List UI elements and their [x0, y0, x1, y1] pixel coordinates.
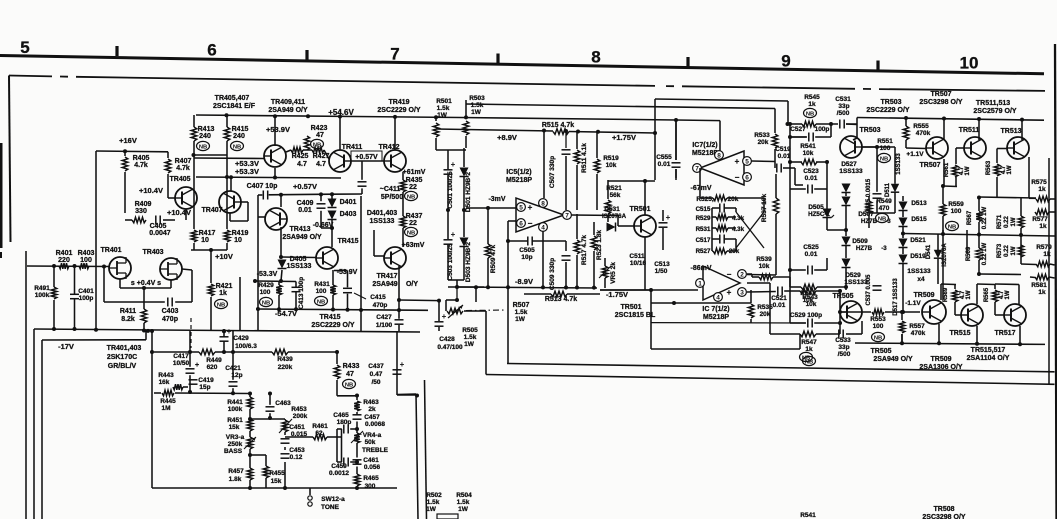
- svg-text:x4: x4: [917, 276, 925, 283]
- ruler tick: [686, 57, 689, 67]
- svg-text:TR503: TR503: [880, 99, 901, 106]
- svg-text:5: 5: [519, 205, 523, 212]
- svg-text:R549: R549: [876, 198, 892, 205]
- svg-text:/50: /50: [371, 379, 380, 386]
- wire +0.57 to C409/D401: [281, 193, 332, 196]
- capacitor C511 electrolytic: [659, 222, 668, 224]
- svg-text:TR419: TR419: [388, 99, 409, 106]
- wire R505 net: [456, 287, 458, 300]
- svg-text:1SS133: 1SS133: [370, 218, 395, 225]
- op-amp IC7b pin 1: [696, 279, 705, 288]
- svg-text:240: 240: [233, 133, 245, 140]
- wire TR411-TR412 base link: [351, 160, 384, 162]
- svg-text:C523: C523: [803, 168, 819, 175]
- svg-text:1: 1: [698, 281, 702, 288]
- svg-text:NB: NB: [345, 382, 353, 388]
- svg-text:1.5k: 1.5k: [515, 309, 528, 316]
- svg-text:+53.3V: +53.3V: [235, 167, 259, 176]
- svg-text:/500: /500: [838, 351, 851, 358]
- svg-text:+: +: [227, 327, 232, 336]
- svg-text:TR401: TR401: [100, 247, 121, 254]
- wire TR405-TR407 link: [125, 219, 132, 221]
- resistor R505 variable: [447, 308, 463, 314]
- svg-text:TR503: TR503: [859, 127, 880, 134]
- svg-text:TR401,403: TR401,403: [107, 345, 142, 352]
- svg-text:2SK170C: 2SK170C: [107, 354, 137, 361]
- svg-text:4.7k: 4.7k: [176, 165, 190, 172]
- svg-text:+1.75V: +1.75V: [612, 133, 636, 142]
- svg-text:VR5 2k: VR5 2k: [610, 262, 617, 284]
- svg-text:NB: NB: [233, 144, 241, 150]
- resistor R541: [801, 159, 817, 165]
- svg-text:TR508: TR508: [933, 506, 954, 513]
- svg-text:TR513: TR513: [1000, 128, 1021, 135]
- svg-text:R525,: R525,: [696, 196, 714, 203]
- svg-text:-17V: -17V: [58, 342, 74, 351]
- resistor R533: [772, 134, 778, 148]
- svg-text:240: 240: [199, 133, 211, 140]
- wire R433 col: [336, 352, 338, 364]
- svg-text:+: +: [442, 312, 447, 321]
- svg-text:C428: C428: [439, 336, 455, 343]
- svg-text:VR4-a: VR4-a: [363, 432, 382, 439]
- wire mid column nodes: [446, 208, 450, 212]
- svg-text:+: +: [528, 203, 533, 212]
- svg-text:NB: NB: [407, 194, 415, 200]
- diode D511: [891, 184, 899, 192]
- svg-text:10k: 10k: [759, 263, 770, 270]
- svg-text:-1.1V: -1.1V: [905, 300, 921, 307]
- svg-text:6: 6: [519, 221, 523, 228]
- svg-text:+0.57V: +0.57V: [293, 182, 317, 191]
- svg-text:C529 100p: C529 100p: [790, 312, 822, 319]
- svg-text:R551: R551: [877, 138, 893, 145]
- wire TR505 base col: [839, 291, 841, 334]
- svg-text:0.47: 0.47: [370, 371, 383, 378]
- svg-text:R449: R449: [206, 357, 222, 364]
- svg-text:−: −: [528, 219, 533, 228]
- resistor R491: [51, 287, 57, 299]
- resistor R421: [210, 250, 212, 283]
- wire tone mid rail y352: [154, 351, 199, 353]
- svg-text:C453: C453: [289, 447, 305, 454]
- ruler tick: [115, 46, 118, 56]
- wire +16V col: [95, 151, 97, 330]
- capacitor C451: [281, 438, 290, 440]
- svg-text:4.7: 4.7: [316, 161, 326, 168]
- wire right emitter buses: [942, 230, 944, 300]
- svg-text:D527: D527: [841, 161, 857, 168]
- wire C529 row: [790, 322, 806, 324]
- svg-text:0.22: 0.22: [1004, 216, 1010, 228]
- transistor TR415: [316, 247, 338, 269]
- svg-text:+10.4V: +10.4V: [167, 208, 191, 217]
- svg-text:D509: D509: [852, 238, 868, 245]
- wire +0.57V net row2: [196, 177, 341, 178]
- wire main bus y330: [34, 329, 420, 332]
- svg-text:D519: D519: [910, 253, 926, 260]
- svg-text:TR507: TR507: [930, 91, 951, 98]
- svg-text:0.01: 0.01: [778, 153, 791, 160]
- wire -54.7V rail: [256, 309, 428, 310]
- svg-text:+: +: [451, 160, 456, 169]
- ruler tick: [305, 50, 308, 60]
- svg-text:C419: C419: [198, 377, 214, 384]
- svg-text:TR505: TR505: [870, 348, 891, 355]
- svg-text:O/Y: O/Y: [406, 281, 418, 288]
- svg-text:C409: C409: [297, 200, 314, 207]
- svg-text:TR413: TR413: [289, 226, 310, 233]
- svg-text:C415: C415: [370, 294, 386, 301]
- resistor R431: [332, 270, 334, 285]
- svg-text:470p: 470p: [373, 302, 388, 309]
- svg-text:1SS133: 1SS133: [844, 279, 868, 286]
- svg-text:R461: R461: [312, 423, 328, 430]
- svg-text:+1.1V: +1.1V: [906, 151, 924, 158]
- svg-text:−: −: [727, 270, 732, 279]
- svg-text:10k: 10k: [803, 150, 814, 157]
- svg-text:10k: 10k: [606, 162, 617, 169]
- wire R415 column: [226, 116, 228, 128]
- svg-text:100k: 100k: [228, 406, 243, 413]
- svg-text:0.01: 0.01: [658, 161, 671, 168]
- resistor R457: [247, 468, 253, 480]
- resistor R523: [591, 236, 597, 250]
- svg-text:C437: C437: [368, 363, 384, 370]
- svg-text:4: 4: [541, 225, 545, 232]
- wire +53.3V row1: [194, 157, 264, 160]
- svg-text:TR417: TR417: [376, 273, 397, 280]
- resistor R517: [574, 240, 580, 254]
- svg-text:R573: R573: [997, 243, 1003, 258]
- wire R413/R415 bottom join: [193, 154, 227, 156]
- svg-text:R439: R439: [277, 356, 293, 363]
- svg-text:R567: R567: [967, 210, 973, 225]
- transistor TR407: [219, 191, 241, 213]
- svg-text:R545: R545: [804, 94, 820, 101]
- svg-text:R435: R435: [406, 177, 423, 184]
- svg-text:0.0068: 0.0068: [365, 421, 385, 428]
- svg-text:2SC2229 O/Y: 2SC2229 O/Y: [866, 107, 910, 114]
- svg-text:HZ7B: HZ7B: [856, 245, 873, 252]
- svg-text:R561: R561: [944, 162, 950, 177]
- diode D505 zener: [823, 209, 832, 218]
- transistor TR401 jfet: [109, 257, 131, 279]
- capacitor C525: [807, 266, 809, 275]
- svg-text:TR507: TR507: [919, 162, 940, 169]
- wire bus upper: [507, 364, 1055, 372]
- svg-text:1k: 1k: [1038, 289, 1046, 296]
- resistor R545: [802, 121, 816, 127]
- wire opamp input: [466, 207, 517, 209]
- connector box bottom: [437, 514, 458, 519]
- svg-text:C515: C515: [696, 206, 711, 213]
- capacitor C459: [343, 458, 345, 467]
- svg-text:22: 22: [409, 184, 417, 191]
- svg-text:TR403: TR403: [142, 249, 163, 256]
- svg-text:C531: C531: [835, 96, 851, 103]
- svg-text:20k: 20k: [760, 311, 771, 318]
- svg-text:C451: C451: [289, 424, 305, 431]
- svg-text:R409: R409: [135, 201, 152, 208]
- svg-text:100p: 100p: [79, 295, 94, 302]
- svg-text:TR407: TR407: [201, 207, 222, 214]
- svg-text:R553: R553: [870, 316, 886, 323]
- svg-text:7: 7: [565, 213, 569, 220]
- svg-text:1k: 1k: [1043, 251, 1051, 258]
- wire line B: [466, 104, 775, 109]
- wire mid column down: [397, 394, 417, 396]
- svg-text:C413 100p: C413 100p: [298, 277, 305, 309]
- resistor R423 diagonal: [304, 136, 309, 150]
- svg-text:D531: D531: [604, 206, 620, 213]
- svg-text:IC5(1/2): IC5(1/2): [506, 169, 531, 176]
- svg-text:15k: 15k: [229, 424, 240, 431]
- op-amp IC5 pin 6: [517, 219, 526, 228]
- svg-text:7: 7: [390, 45, 399, 64]
- svg-text:7: 7: [695, 166, 699, 173]
- svg-text:R537 10k: R537 10k: [761, 194, 768, 223]
- svg-text:R421: R421: [216, 283, 233, 290]
- svg-text:0.22: 0.22: [1004, 245, 1010, 257]
- wire right border none: [1048, 158, 1050, 384]
- diode D403: [328, 211, 337, 220]
- resistor R413: [191, 127, 197, 141]
- svg-text:R415: R415: [232, 126, 249, 133]
- op-amp IC7a triangle mirrored: [700, 151, 744, 185]
- svg-text:R437: R437: [406, 213, 423, 220]
- wire line B drop to R533: [774, 109, 776, 134]
- wire input net: [25, 251, 27, 519]
- label VR4-a 50k TREBLE: [354, 433, 360, 443]
- svg-text:2SC3298 O/Y: 2SC3298 O/Y: [919, 99, 963, 106]
- svg-text:470k: 470k: [911, 330, 926, 337]
- op-amp IC7a pin 7: [693, 164, 702, 173]
- vr VR5: [602, 266, 608, 278]
- wire opamp7b out: [747, 282, 770, 284]
- resistor R439: [272, 349, 288, 355]
- resistor R443: [173, 384, 183, 390]
- svg-text:15k: 15k: [271, 478, 282, 485]
- resistor R569: [976, 248, 982, 260]
- svg-text:1SS133: 1SS133: [907, 268, 931, 275]
- svg-text:+61mV: +61mV: [403, 169, 426, 176]
- transistor TR503 circle: [840, 136, 862, 158]
- capacitor C417: [186, 368, 195, 370]
- resistor R503: [465, 100, 467, 119]
- capacitor C427: [395, 319, 404, 321]
- diode D509: [842, 237, 851, 246]
- wire X cross: [736, 212, 764, 248]
- wire TR417 base col: [374, 255, 385, 257]
- svg-text:R581: R581: [1031, 282, 1047, 289]
- wire left input wire: [27, 265, 109, 268]
- svg-text:R455: R455: [269, 470, 285, 477]
- svg-text:SW12-a: SW12-a: [321, 496, 345, 503]
- capacitor C519: [776, 164, 778, 173]
- capacitor C457: [353, 414, 362, 416]
- svg-text:R529: R529: [696, 215, 711, 222]
- op-amp IC7b pin 4: [714, 293, 723, 302]
- resistor R407: [167, 152, 169, 158]
- wire bus vertical outer: [485, 311, 487, 375]
- capacitor C413: [295, 282, 297, 288]
- svg-text:NB: NB: [317, 299, 325, 305]
- svg-text:R423: R423: [311, 125, 328, 132]
- resistor R543b: [801, 284, 817, 290]
- svg-text:R579: R579: [1036, 244, 1052, 251]
- svg-text:R541: R541: [800, 143, 816, 150]
- resistor R425: [291, 147, 303, 153]
- op-amp IC7a pin 5: [743, 157, 752, 166]
- svg-text:R405: R405: [133, 155, 150, 162]
- capacitor C437 electrolytic: [393, 369, 402, 371]
- svg-text:R523 1.8k: R523 1.8k: [596, 230, 603, 260]
- svg-text:200k: 200k: [293, 413, 308, 420]
- svg-text:6: 6: [207, 41, 216, 60]
- svg-text:R575: R575: [1031, 179, 1047, 186]
- tone box left wire: [151, 330, 153, 488]
- svg-text:1W: 1W: [1011, 246, 1017, 255]
- wire long 322: [651, 322, 806, 324]
- wire TR407 base loop: [241, 201, 248, 203]
- resistor R427: [312, 147, 324, 153]
- op-amp IC5 pin 8: [539, 199, 548, 208]
- svg-text:0.056: 0.056: [364, 464, 381, 471]
- resistor R573: [1018, 245, 1024, 257]
- diode D501 zener: [460, 168, 469, 177]
- wire bus stub left upper: [397, 393, 416, 396]
- svg-text:C463: C463: [275, 400, 291, 407]
- svg-text:C513: C513: [654, 261, 670, 268]
- svg-text:NB: NB: [262, 300, 270, 306]
- wire +54.6 rail extension: [460, 118, 676, 121]
- wire C407 row: [258, 194, 262, 196]
- svg-text:300: 300: [365, 483, 376, 490]
- resistor R463: [354, 401, 360, 411]
- node bus dots: [150, 329, 154, 333]
- resistor R555: [903, 126, 909, 140]
- svg-text:R527: R527: [696, 248, 711, 255]
- transistor TR417: [384, 247, 406, 269]
- capacitor C409: [317, 203, 326, 205]
- wire box A top: [655, 99, 788, 101]
- svg-text:/500: /500: [837, 110, 850, 117]
- frame top dash-dot border: [9, 75, 52, 78]
- op-amp IC7b triangle: [703, 266, 740, 300]
- node rail-R501: [434, 115, 438, 119]
- svg-text:R509 47k: R509 47k: [490, 245, 497, 274]
- svg-text:1k: 1k: [1039, 223, 1047, 230]
- wire SW12 stub: [309, 488, 311, 495]
- resistor R453: [282, 420, 288, 432]
- svg-text:1/100: 1/100: [376, 322, 393, 329]
- svg-text:D511: D511: [885, 182, 891, 197]
- svg-text:33p: 33p: [838, 344, 849, 351]
- capacitor C421: [229, 381, 238, 383]
- svg-text:1.8k: 1.8k: [229, 476, 242, 483]
- svg-text:1W: 1W: [426, 506, 437, 513]
- capacitor C533: [838, 330, 840, 339]
- wire TR409 collector: [274, 116, 276, 146]
- svg-text:−: −: [735, 173, 740, 182]
- wire -1.75V rail: [600, 289, 651, 291]
- svg-text:62: 62: [315, 430, 323, 437]
- capacitor C403: [167, 298, 169, 307]
- transistor TR511: [964, 137, 986, 159]
- svg-text:R453: R453: [291, 406, 307, 413]
- wire bus corner down: [33, 329, 35, 519]
- svg-text:6: 6: [745, 175, 749, 182]
- diode D503 zener: [460, 238, 469, 247]
- wire TR417 emitter down: [398, 266, 400, 300]
- wire right rows: [979, 197, 1036, 198]
- resistor R589: [952, 290, 958, 302]
- wire tone net links: [249, 394, 251, 398]
- diode D507: [842, 197, 851, 206]
- svg-text:+63mV: +63mV: [402, 242, 425, 249]
- wire rail drop TR503: [846, 123, 857, 126]
- wire C411 col down: [360, 196, 362, 331]
- svg-text:TR515: TR515: [949, 330, 970, 337]
- svg-text:NB: NB: [948, 224, 956, 230]
- svg-text:R589: R589: [943, 287, 949, 302]
- svg-text:1W: 1W: [471, 109, 482, 116]
- capacitor C507: [562, 149, 571, 151]
- diode D527: [842, 184, 851, 193]
- svg-text:-53.3V: -53.3V: [257, 271, 278, 278]
- svg-text:20k: 20k: [758, 139, 769, 146]
- svg-text:TR509: TR509: [913, 292, 934, 299]
- capacitor C529: [807, 319, 809, 328]
- svg-text:1SS133: 1SS133: [896, 153, 902, 175]
- capacitor C453: [281, 453, 290, 455]
- wire TR412 collector to rail: [394, 117, 396, 150]
- wire -8.9V rail: [457, 287, 597, 288]
- wire -1.75V long: [600, 289, 698, 291]
- svg-text:10/16: 10/16: [630, 260, 647, 267]
- svg-text:VR3-a: VR3-a: [226, 434, 245, 441]
- svg-text:TR405,407: TR405,407: [215, 95, 250, 102]
- transistor TR509: [922, 300, 946, 324]
- svg-text:R413: R413: [198, 126, 215, 133]
- wire TR401/TR403 sources: [119, 279, 121, 288]
- svg-text:2SA949 O/Y: 2SA949 O/Y: [268, 107, 308, 114]
- node rail-TR409: [306, 114, 310, 118]
- capacitor C401: [70, 293, 79, 295]
- svg-text:100: 100: [873, 323, 884, 330]
- svg-text:TR415: TR415: [319, 314, 340, 321]
- svg-text:R517 4.7k: R517 4.7k: [581, 235, 588, 265]
- svg-text:10p: 10p: [521, 254, 532, 261]
- svg-text:C429: C429: [233, 335, 249, 342]
- svg-text:8.2k: 8.2k: [121, 316, 135, 323]
- svg-text:C459: C459: [331, 463, 347, 470]
- frame left border: [9, 76, 11, 243]
- svg-text:1W: 1W: [1007, 165, 1013, 174]
- svg-text:C525: C525: [803, 244, 819, 251]
- resistor R539: [759, 274, 773, 280]
- wire R547 row: [770, 333, 800, 335]
- svg-text:C521: C521: [771, 295, 787, 302]
- resistor R561: [952, 165, 958, 177]
- capacitor C535: [873, 193, 882, 195]
- scan edge mark: [0, 143, 3, 248]
- svg-text:+: +: [400, 360, 405, 369]
- resistor R577: [1035, 209, 1049, 215]
- svg-text:D403: D403: [340, 211, 357, 218]
- svg-text:R433: R433: [343, 363, 360, 370]
